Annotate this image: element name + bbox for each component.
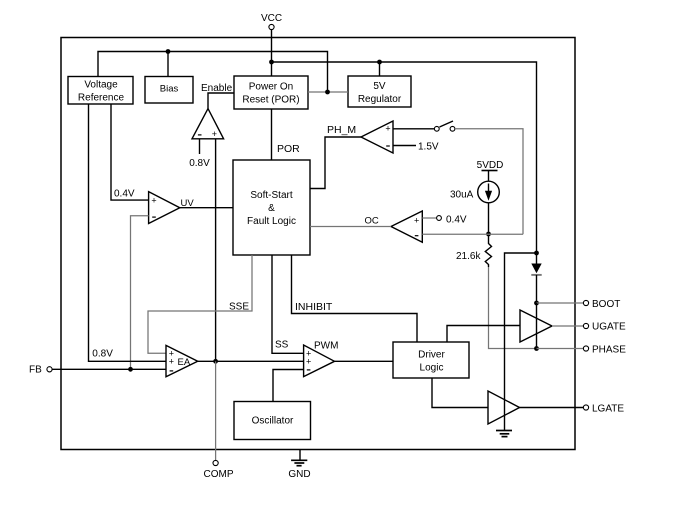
wire gray POR to 5V regulator — [308, 91, 348, 93]
wire UGATE output to terminal (gray) — [552, 325, 584, 327]
terminal PHASE — [583, 346, 588, 351]
wire switch to OC minus net (gray) — [455, 129, 523, 234]
wire VCC branch to LGATE driver supply — [505, 253, 537, 415]
svg-text:SS: SS — [275, 340, 289, 351]
svg-text:GND: GND — [288, 469, 310, 480]
node 5V regulator junction — [377, 60, 382, 65]
node OC minus junction — [486, 232, 491, 237]
op-amp PWM comparator — [304, 345, 335, 377]
block Soft-Start and Fault Logic — [233, 160, 310, 255]
svg-text:0.8V: 0.8V — [189, 158, 210, 169]
wire oscillator to PWM minus — [273, 370, 304, 402]
wire UV minus branch from FB node (gray) — [131, 216, 149, 370]
op-amp OC comparator — [391, 211, 422, 242]
svg-text:+: + — [385, 124, 390, 134]
svg-text:BOOT: BOOT — [592, 299, 620, 310]
wire 0.4V from voltage reference to UV plus — [111, 104, 149, 200]
wire POR to soft-start — [271, 109, 273, 160]
terminal FB — [29, 365, 52, 376]
op-amp EA error amplifier — [166, 345, 198, 376]
svg-text:EA: EA — [178, 357, 191, 368]
block 5V Regulator — [348, 76, 411, 107]
resistor R1 21.6k — [485, 240, 491, 267]
svg-text:Bias: Bias — [160, 84, 179, 95]
svg-text:UGATE: UGATE — [592, 322, 626, 333]
svg-text:PWM: PWM — [314, 341, 338, 352]
wire enable minus stub to 0.8V — [199, 139, 201, 154]
wire bus A (VCC to Voltage Reference / Bias) — [98, 52, 328, 93]
svg-text:Voltage: Voltage — [84, 80, 118, 91]
wire VCC vertical into POR — [271, 30, 273, 76]
diode D1 — [531, 253, 541, 303]
wire SSE net (gray) soft-start to EA — [148, 255, 252, 353]
power rail 5VDD bar — [482, 170, 498, 172]
block Driver Logic — [393, 342, 469, 378]
node diode top junction — [534, 251, 539, 256]
wire 5V regulator drop — [379, 62, 381, 76]
block Power On Reset (POR) — [234, 76, 308, 109]
wire OC plus stub — [422, 217, 436, 219]
node VCC bus B junction — [269, 60, 274, 65]
wire PH_M minus stub — [393, 145, 416, 147]
svg-text:&: & — [268, 203, 275, 214]
wire BOOT to PHASE through UGATE buffer — [536, 303, 538, 349]
block Oscillator — [234, 402, 311, 440]
svg-text:VCC: VCC — [261, 13, 282, 24]
wire current source to resistor — [488, 203, 490, 240]
svg-text:0.4V: 0.4V — [446, 215, 467, 226]
svg-text:LGATE: LGATE — [592, 404, 624, 415]
block Voltage Reference — [68, 77, 133, 105]
terminal LGATE — [583, 405, 588, 410]
wire FB to EA minus — [52, 368, 166, 370]
wire UV output to soft-start — [180, 207, 233, 209]
svg-text:Regulator: Regulator — [358, 94, 402, 105]
svg-text:OC: OC — [365, 216, 379, 227]
node bus A to gray link — [325, 90, 330, 95]
wire COMP down (gray) — [215, 361, 217, 460]
wire 5VDD to current source — [488, 171, 490, 182]
svg-text:Reset (POR): Reset (POR) — [242, 95, 299, 106]
wire EA output to PWM — [198, 360, 304, 362]
terminal UGATE — [583, 323, 588, 328]
terminal COMP — [213, 460, 218, 465]
wire OC minus line (gray) — [422, 233, 523, 235]
terminal BOOT — [583, 300, 588, 305]
terminal GND — [288, 450, 310, 481]
svg-text:Power On: Power On — [249, 82, 293, 93]
wire bus B (VCC to right side) — [272, 62, 537, 253]
switch S1 — [434, 121, 455, 131]
node BOOT junction — [534, 301, 539, 306]
wire PHASE to terminal (gray) — [537, 348, 584, 350]
svg-text:COMP: COMP — [204, 469, 234, 480]
ground below LGATE buffer — [496, 416, 512, 437]
svg-text:Fault Logic: Fault Logic — [247, 216, 296, 227]
wire INHIBIT net soft-start to driver logic — [292, 255, 418, 342]
svg-text:Reference: Reference — [78, 92, 125, 103]
op-amp enable comparator — [192, 109, 224, 139]
terminal VCC — [261, 13, 282, 30]
outer IC boundary box — [61, 38, 575, 450]
block Bias — [145, 77, 193, 104]
svg-text:5V: 5V — [373, 81, 386, 92]
wire bias drop — [167, 52, 169, 77]
svg-text:5VDD: 5VDD — [477, 160, 504, 171]
buffer UGATE driver — [520, 310, 552, 342]
wire PH_M output to soft-start — [310, 137, 361, 189]
svg-text:FB: FB — [29, 365, 42, 376]
node EA output COMP junction — [213, 359, 218, 364]
wire SS net soft-start to PWM — [272, 255, 304, 353]
svg-text:+: + — [306, 357, 311, 367]
svg-text:1.5V: 1.5V — [418, 142, 439, 153]
svg-text:+: + — [169, 357, 174, 367]
op-amp PH_M comparator — [361, 121, 393, 153]
wire enable plus down to EA output node — [215, 139, 217, 361]
svg-text:Logic: Logic — [420, 363, 444, 374]
svg-text:21.6k: 21.6k — [456, 251, 481, 262]
svg-text:+: + — [212, 129, 217, 139]
terminal 0.4V OC — [437, 216, 442, 221]
svg-text:Soft-Start: Soft-Start — [250, 190, 292, 201]
svg-text:PH_M: PH_M — [327, 124, 356, 136]
svg-text:SSE: SSE — [229, 302, 249, 313]
svg-text:PHASE: PHASE — [592, 345, 626, 356]
svg-text:Driver: Driver — [418, 350, 445, 361]
wire PH_M plus input to switch — [393, 128, 434, 130]
wire BOOT to terminal (gray) — [537, 302, 584, 304]
svg-text:0.4V: 0.4V — [114, 189, 135, 200]
wire 0.8V from voltage reference to EA — [89, 104, 167, 361]
op-amp UV comparator — [149, 192, 180, 224]
buffer LGATE driver — [488, 391, 520, 424]
node bias junction — [166, 49, 171, 54]
svg-text:POR: POR — [277, 143, 300, 155]
node FB UV branch — [128, 367, 133, 372]
wire enable comparator output to POR — [208, 93, 234, 109]
svg-text:INHIBIT: INHIBIT — [295, 301, 333, 313]
wire LGATE output to terminal — [520, 407, 584, 409]
current source I1 30uA — [478, 181, 500, 203]
wire driver logic to UGATE buffer input — [447, 326, 520, 343]
wire OC output to soft-start (gray) — [310, 226, 391, 228]
svg-text:+: + — [151, 196, 156, 206]
wire resistor to PHASE (gray) — [489, 267, 537, 349]
svg-text:0.8V: 0.8V — [92, 349, 113, 360]
wire PWM output to driver logic — [335, 360, 394, 362]
svg-text:+: + — [414, 215, 419, 225]
svg-text:Oscillator: Oscillator — [252, 416, 294, 427]
wire driver logic to LGATE buffer input — [432, 378, 488, 408]
node PHASE junction — [534, 346, 539, 351]
svg-text:30uA: 30uA — [450, 190, 474, 201]
